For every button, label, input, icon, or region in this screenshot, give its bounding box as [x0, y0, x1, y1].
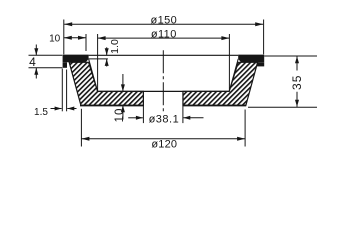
dim ø150 arrow left	[64, 22, 72, 26]
dim 1.5 arrow right	[67, 108, 76, 110]
dim 4 ref line top	[29, 54, 63, 56]
dim 10 top line	[64, 37, 86, 39]
recess step line	[89, 58, 108, 60]
svg-text:ø120: ø120	[151, 139, 177, 151]
dim ø110 arrow left	[98, 36, 106, 40]
svg-text:ø150: ø150	[150, 14, 177, 26]
dim 35 ref line bottom	[248, 106, 317, 108]
dim ø150 ext line left	[63, 20, 65, 55]
wall section right (hatched)	[183, 62, 258, 105]
svg-text:35: 35	[290, 75, 304, 90]
svg-text:10: 10	[114, 108, 126, 123]
svg-text:1.5: 1.5	[34, 107, 48, 118]
bottom face edge right (thick)	[183, 105, 246, 107]
centerline	[162, 50, 164, 111]
dim 1.5 arrow left	[51, 108, 62, 110]
dim 1.5 ext line right	[66, 70, 68, 112]
abrasive lip right	[257, 62, 264, 66]
abrasive band right (solid black)	[238, 55, 264, 63]
dim 10 top arrow left	[64, 36, 72, 40]
dim 4 arrow bottom	[35, 68, 37, 79]
dim 10 top arrow right	[78, 36, 86, 40]
abrasive band left (solid black)	[63, 55, 89, 63]
dim ø120 arrow right	[237, 137, 245, 141]
dim ø110 ext+inner wall left	[97, 34, 99, 91]
dim ø120 line	[81, 138, 245, 140]
abrasive lip left	[63, 62, 67, 68]
inner slant edge left	[89, 59, 98, 92]
svg-text:10: 10	[49, 34, 61, 45]
dim ø110 arrow right	[221, 36, 229, 40]
dim 35 arrow down	[296, 92, 298, 107]
dim 35 arrow up	[296, 56, 298, 70]
dim 1.0 upper arrow	[106, 47, 108, 55]
dim ø120 arrow left	[81, 137, 89, 141]
bore edge right	[182, 91, 184, 123]
svg-text:4: 4	[29, 55, 36, 69]
wall section left (hatched)	[69, 62, 143, 105]
dim 1.5 ext line left	[61, 69, 63, 112]
dim 35 ref line top	[264, 55, 317, 57]
cavity floor line	[98, 90, 230, 92]
svg-text:1.0: 1.0	[109, 39, 121, 54]
bore edge left	[142, 91, 144, 123]
dim 1.0 lower arrow	[106, 59, 108, 67]
dim 10 top ext line right	[85, 34, 87, 51]
dim 10 hub arrow bottom	[122, 105, 124, 119]
dim ø110 line	[98, 37, 230, 39]
svg-text:ø38.1: ø38.1	[149, 113, 180, 125]
dim ø38.1 arrow right	[183, 117, 203, 119]
dim ø150 arrow right	[255, 22, 263, 26]
cavity rim line	[89, 54, 239, 56]
svg-text:ø110: ø110	[151, 28, 177, 40]
dim ø120 ext line right	[244, 110, 246, 147]
dim ø110 ext+inner wall right	[228, 34, 230, 91]
dim ø120 ext line left	[80, 109, 82, 147]
dim ø38.1 arrow left	[128, 117, 143, 119]
dim ø150 line	[64, 23, 263, 25]
dim ø150 ext line right	[263, 20, 265, 55]
dim 10 hub arrow top	[122, 74, 124, 91]
dim 4 arrow top	[35, 45, 37, 56]
bottom face edge left (thick)	[80, 105, 144, 107]
dim 4 ref line bottom	[29, 67, 63, 69]
inner slant edge right	[229, 59, 238, 92]
